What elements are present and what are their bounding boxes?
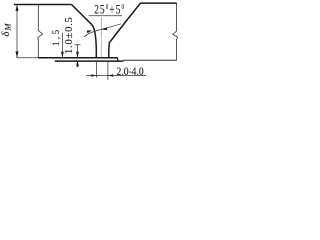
right plate bottom edge	[123, 59, 176, 61]
arrowhead down (delta_M bottom)	[16, 51, 19, 57]
dimension 1.0+-0.5 lower shaft	[77, 61, 79, 68]
arrowhead up (delta_M top)	[16, 5, 19, 11]
backing bottom edge	[55, 60, 124, 62]
dimension 1,5 shaft	[61, 33, 63, 58]
gap arrowhead pointing right	[91, 74, 96, 77]
left plate bottom edge	[38, 57, 117, 59]
left break line (zigzag)	[38, 4, 43, 57]
svg-text:1.0±0.5: 1.0±0.5	[64, 16, 75, 54]
angle dimension arc	[84, 24, 121, 37]
angle arrowhead on bevel	[87, 30, 92, 33]
gap extension line right	[107, 62, 109, 80]
underline for 25deg+5deg	[89, 15, 122, 17]
backing step down	[117, 58, 119, 61]
bottom extension line left	[17, 57, 39, 59]
arrowhead up (1.0+-0.5 lower)	[76, 60, 79, 66]
right plate bevel face	[109, 3, 141, 53]
gap dimension line / underline 2.0-4.0	[86, 75, 146, 77]
right plate top surface	[141, 2, 177, 4]
arrowhead down (1.0+-0.5)	[76, 52, 79, 58]
dimension delta_M line	[16, 5, 18, 58]
right plate root face	[108, 54, 110, 58]
angle extension line (vertical, gray)	[100, 17, 102, 58]
backing right connector	[122, 59, 124, 62]
svg-text:2.0-4.0: 2.0-4.0	[117, 65, 145, 78]
arrowhead down (1,5)	[61, 52, 64, 58]
angle arrowhead at vertical line	[101, 28, 107, 31]
dimension 1.0+-0.5 upper shaft with tick	[75, 45, 81, 58]
gap extension line left	[96, 62, 98, 78]
left plate top surface	[14, 4, 72, 6]
right break line (zigzag)	[173, 3, 178, 60]
gap arrowhead pointing left	[108, 74, 113, 77]
svg-text:1,5: 1,5	[51, 27, 61, 46]
svg-text:250+50: 250+50	[94, 3, 125, 17]
left plate root face	[95, 50, 97, 58]
left plate bevel face	[72, 5, 97, 50]
svg-text:δM: δM	[1, 23, 12, 37]
